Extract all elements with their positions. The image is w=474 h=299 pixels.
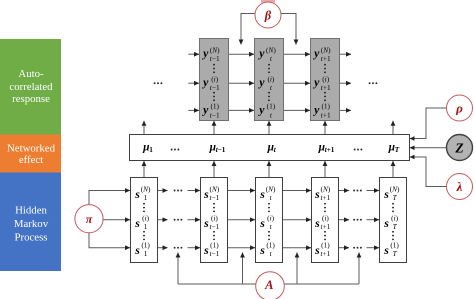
svg-text:t−1: t−1 (210, 110, 220, 119)
blue sidebar box: Hidden Markov Process (0, 173, 61, 272)
svg-text:y: y (201, 102, 209, 116)
green sidebar box: Auto-correlated response (0, 39, 61, 135)
svg-text:(1): (1) (267, 102, 276, 111)
wire: lambda to mu box (410, 157, 447, 187)
ellipsis right of y boxes (369, 82, 378, 84)
wire: A up arrow (242, 253, 244, 285)
observed block y_t (255, 39, 284, 121)
wire: s_t-1 to s_t row (i) (228, 219, 256, 221)
wire: s_t to s_t+1 row (N) (283, 190, 312, 192)
wire: into y_t-1 box row (i) (188, 82, 199, 84)
svg-text:Process: Process (15, 232, 48, 244)
svg-text:t−1: t−1 (210, 83, 220, 92)
svg-text:(N): (N) (266, 45, 276, 54)
wire: y_t to y_t+1 row (1) (284, 109, 311, 111)
networked-effect box mu_1..mu_T (130, 135, 410, 161)
svg-text:Markov: Markov (14, 218, 49, 230)
node rho (circle) (447, 95, 473, 121)
svg-text:(1): (1) (210, 102, 219, 111)
wire: mu to y_t+1 (324, 121, 326, 134)
node beta (circle) (255, 2, 281, 28)
wire: y_t to y_t+1 row (N) (284, 53, 311, 55)
svg-text:t+1: t+1 (321, 83, 331, 92)
wire: beta to right transition arrow (281, 14, 296, 45)
hidden state box s_t (256, 178, 283, 263)
svg-text:s: s (383, 243, 389, 257)
svg-text:1: 1 (149, 146, 153, 154)
wire: mu_1 up (143, 121, 145, 134)
svg-text:s: s (383, 187, 389, 201)
svg-text:y: y (201, 75, 209, 89)
svg-text:1: 1 (144, 222, 148, 231)
svg-text:t−1: t−1 (210, 222, 220, 231)
wire: s_t to s_t+1 row (i) (283, 219, 312, 221)
ellipsis between s_t+1 and s_T row (i) (353, 219, 362, 221)
wire: y_t-1 to y_t row (1) (229, 109, 255, 111)
svg-text:Z: Z (454, 141, 463, 156)
svg-text:(N): (N) (210, 45, 220, 54)
observed block y_t+1 (311, 39, 340, 121)
svg-text:(i): (i) (267, 74, 274, 83)
svg-text:y: y (257, 102, 265, 116)
wire: A baseline (178, 283, 359, 285)
pink clipped shape at top edge (261, 0, 275, 3)
wire: y_t-1 to y_t row (N) (229, 53, 255, 55)
ellipsis between s_1 and s_t-1 row (N) (174, 190, 183, 192)
wire: beta to left transition arrow (241, 14, 255, 45)
wire: y_t-1 to y_t row (i) (229, 82, 255, 84)
wire: s_t-1 to s_t row (N) (228, 190, 256, 192)
svg-text:(N): (N) (321, 45, 331, 54)
hidden state box s_t+1 (312, 178, 339, 263)
svg-text:t−1: t−1 (210, 54, 220, 63)
svg-text:y: y (312, 75, 320, 89)
svg-text:y: y (257, 46, 265, 60)
wire: out of y_t+1 box row (N) (340, 53, 352, 55)
hidden state box s_T (380, 178, 407, 263)
ellipsis between s_1 and s_t-1 row (1) (174, 247, 183, 249)
svg-text:s: s (314, 216, 320, 230)
observed block y_t−1 (200, 39, 229, 121)
wire: s_t+1 out row (i) (339, 219, 350, 221)
wire: s to mu (268, 161, 270, 178)
wire: out of y_t+1 box row (i) (340, 82, 352, 84)
wire: into s_t-1 row (N) (188, 190, 201, 192)
svg-text:s: s (203, 187, 209, 201)
svg-text:T: T (395, 146, 400, 154)
wire: pi to s_1 row (i) (103, 219, 130, 221)
node Z (gray circle) (447, 135, 473, 161)
svg-text:(i): (i) (322, 74, 329, 83)
svg-text:s: s (134, 243, 140, 257)
svg-text:t+1: t+1 (321, 193, 331, 202)
svg-text:y: y (312, 102, 320, 116)
wire: into s_T row (N) (367, 190, 380, 192)
svg-text:ρ: ρ (455, 101, 463, 116)
svg-text:s: s (314, 187, 320, 201)
wire: pi to s_1 row (1) (89, 233, 130, 248)
svg-text:correlated: correlated (9, 81, 53, 93)
svg-text:t+1: t+1 (325, 146, 335, 154)
hidden state box s_1 (131, 178, 158, 263)
ellipsis between s_1 and s_t-1 row (i) (174, 219, 183, 221)
wire: s_1 out row (i) (158, 219, 168, 221)
wire: A up arrow (358, 253, 360, 285)
ellipsis left of y boxes (154, 82, 163, 84)
wire: into s_t-1 row (1) (188, 247, 201, 249)
wire: s_t-1 to s_t row (1) (228, 247, 256, 249)
svg-text:t+1: t+1 (321, 110, 331, 119)
node lambda (circle) (447, 174, 473, 200)
wire: mu to y_t (268, 121, 270, 134)
svg-text:response: response (12, 93, 50, 105)
wire: s to mu (143, 161, 145, 178)
svg-text:s: s (259, 243, 265, 257)
node pi (circle) (75, 205, 103, 233)
svg-text:t−1: t−1 (216, 146, 226, 154)
svg-text:s: s (259, 216, 265, 230)
wire: s to mu (324, 161, 326, 178)
svg-text:y: y (312, 46, 320, 60)
wire: A up arrow (177, 253, 179, 285)
wire: into s_T row (i) (367, 219, 380, 221)
wire: Z to mu box (410, 147, 447, 149)
svg-text:s: s (259, 187, 265, 201)
svg-text:effect: effect (19, 154, 43, 166)
svg-text:1: 1 (144, 249, 148, 258)
wire: mu_T up (392, 121, 394, 134)
svg-text:y: y (257, 75, 265, 89)
wire: s_t+1 out row (1) (339, 247, 350, 249)
wire: into y_t-1 box row (1) (188, 109, 199, 111)
wire: s_t to s_t+1 row (1) (283, 247, 312, 249)
wire: s_t+1 out row (N) (339, 190, 350, 192)
orange sidebar box: Networked effect (0, 135, 61, 173)
svg-text:s: s (134, 187, 140, 201)
svg-text:Hidden: Hidden (15, 205, 47, 217)
ellipsis between s_t+1 and s_T row (N) (353, 190, 362, 192)
svg-text:(1): (1) (321, 102, 330, 111)
wire: s_1 out row (N) (158, 190, 168, 192)
svg-text:β: β (264, 8, 272, 22)
svg-text:A: A (264, 278, 273, 292)
svg-text:t+1: t+1 (321, 54, 331, 63)
wire: y_t to y_t+1 row (i) (284, 82, 311, 84)
wire: rho to mu box (410, 108, 447, 139)
svg-text:s: s (134, 216, 140, 230)
svg-text:t−1: t−1 (210, 193, 220, 202)
wire: pi to s_1 row (N) (89, 191, 130, 205)
svg-text:y: y (201, 46, 209, 60)
svg-text:s: s (203, 243, 209, 257)
svg-text:t−1: t−1 (210, 249, 220, 258)
wire: s_1 out row (1) (158, 247, 168, 249)
svg-text:s: s (203, 216, 209, 230)
wire: into s_t-1 row (i) (188, 219, 201, 221)
svg-text:λ: λ (456, 179, 463, 194)
wire: into s_T row (1) (367, 247, 380, 249)
wire: s to mu (392, 161, 394, 178)
svg-text:1: 1 (144, 193, 148, 202)
wire: into y_t-1 box row (N) (188, 53, 199, 55)
wire: A up arrow (296, 253, 298, 285)
svg-text:s: s (314, 243, 320, 257)
node A (circle, clipped at bottom) (256, 272, 285, 299)
svg-text:t+1: t+1 (321, 222, 331, 231)
svg-text:π: π (86, 212, 93, 226)
svg-text:Auto-: Auto- (18, 68, 44, 80)
wire: s to mu (213, 161, 215, 178)
ellipsis between s_t+1 and s_T row (1) (353, 247, 362, 249)
wire: mu to y_t-1 (213, 121, 215, 134)
wire: out of y_t+1 box row (1) (340, 109, 352, 111)
svg-text:Networked: Networked (7, 143, 56, 155)
svg-text:t+1: t+1 (321, 249, 331, 258)
hidden state box s_t−1 (201, 178, 228, 263)
svg-text:s: s (383, 216, 389, 230)
svg-text:(i): (i) (211, 74, 218, 83)
